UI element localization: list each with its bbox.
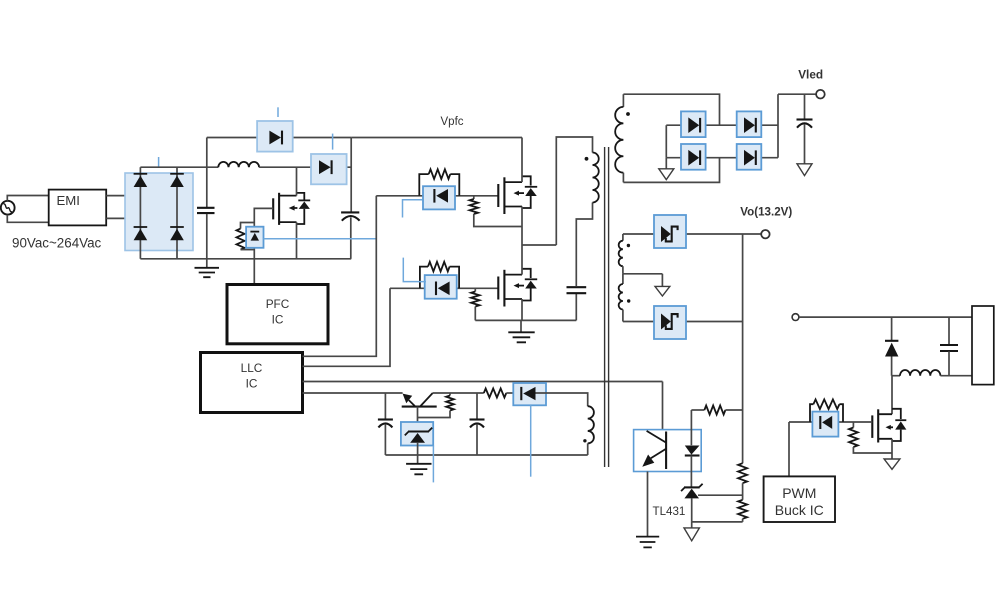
wire Q3 source (521, 299, 523, 320)
EMI filter block (49, 190, 106, 226)
sense diode highlight box (246, 227, 263, 248)
zener diode Z1 (405, 428, 432, 443)
Vled output wire (778, 93, 816, 95)
ground G2 (406, 464, 431, 475)
aux diode D8 (521, 387, 535, 400)
wire Vled coil top to bridge (623, 94, 719, 125)
wire Q4 collector row (433, 392, 484, 394)
zener diode box (401, 422, 433, 446)
ground G1 (195, 259, 220, 277)
bridge diode D3 (134, 226, 148, 228)
buck gate resistor (810, 399, 843, 421)
svg-text:Vled: Vled (798, 68, 823, 82)
low-side MOSFET Q3 (498, 269, 537, 307)
bypass diode D5 (269, 131, 281, 145)
aux resistor R3 (484, 389, 507, 398)
resonant capacitor C3 (567, 203, 593, 321)
wire mid node to primary top (556, 137, 592, 245)
gate resistor R1 (237, 223, 255, 250)
buck inductor L2 (892, 370, 972, 376)
buck top rail (799, 316, 972, 318)
wire Q2 drain (521, 138, 523, 183)
wire Q5 source (891, 439, 893, 453)
Vled output capacitor C4 (797, 94, 813, 164)
Vled winding dot (626, 112, 630, 116)
high-side gate diode box (423, 186, 455, 209)
Vled diode box TL (681, 111, 706, 137)
Vo bottom winding dot (627, 299, 630, 302)
optocoupler phototransistor (642, 431, 666, 469)
Vled diode D_TR (744, 117, 755, 133)
svg-text:TL431: TL431 (653, 505, 686, 518)
wire AC to EMI (top) (7, 196, 48, 201)
wire zener anode to ground (417, 443, 419, 464)
Vled diode D_BR (744, 150, 755, 166)
svg-text:Vpfc: Vpfc (441, 116, 464, 128)
ground G4 (636, 537, 659, 548)
schottky diode S1 (661, 226, 671, 242)
Vled rectifier right vertical (777, 94, 779, 158)
wire LLC Vcc (303, 392, 403, 394)
buck MOSFET Q5 (872, 409, 906, 443)
schottky diode S2 (661, 314, 671, 330)
bias resistor R2 (418, 393, 454, 418)
svg-text:Vo(13.2V): Vo(13.2V) (740, 206, 792, 219)
high-side MOSFET Q2 (498, 176, 537, 214)
wire R3 to aux diode (506, 392, 513, 394)
Vled secondary winding (615, 94, 623, 182)
bypass diode highlight box (257, 121, 293, 152)
arrow terminal A3 (655, 274, 670, 296)
wire Q1 gate (254, 208, 273, 284)
Vled rectifier bottom row wire (666, 157, 778, 159)
transformer primary winding (593, 153, 599, 203)
blue drop line (zener box) (432, 446, 434, 483)
PFC MOSFET Q1 (273, 193, 310, 225)
Vo feedback vertical (742, 234, 744, 463)
optocoupler box U3 (634, 430, 702, 472)
bridge left leg wire (139, 167, 141, 259)
buck pulldown resistor R7 (849, 422, 892, 453)
high-side pulldown resistor (470, 196, 522, 227)
feedback resistor R4 (691, 406, 742, 415)
high-side gate resistor (419, 169, 459, 196)
Vled rectifier left vertical (665, 125, 667, 158)
blue connector tick above bridge (158, 157, 160, 167)
load box (972, 306, 994, 385)
wire inductor to boost diode (259, 166, 351, 168)
wire LLC to low-side gate (303, 288, 391, 366)
wire TL431 anode (691, 498, 693, 522)
bridge rectifier highlight box (125, 173, 193, 251)
Vled diode D_BL (688, 150, 699, 166)
svg-text:IC: IC (246, 376, 258, 390)
sense diode D7 (250, 232, 259, 241)
bridge diode D1 (134, 173, 148, 175)
Vled diode box BL (681, 144, 706, 170)
PFC inductor L1 (218, 162, 259, 167)
buck gate diode box (812, 412, 838, 437)
divider resistor R6 (738, 500, 747, 522)
wire EMI to bridge (top input) (106, 195, 140, 197)
Vo top output wire (623, 233, 761, 235)
node junction vertical (Vpfc) (350, 138, 352, 213)
bottom feedback wire (692, 521, 743, 523)
svg-text:Buck IC: Buck IC (775, 502, 824, 518)
Vpfc rail (351, 137, 522, 139)
primary dot (585, 157, 589, 161)
bridge diode D2 (170, 173, 184, 175)
boost diode highlight box (311, 154, 347, 184)
PWM Buck IC box (764, 476, 835, 522)
blue connector tick above bypass diode (277, 107, 279, 117)
buck input terminal (792, 314, 799, 321)
boost diode D6 (319, 160, 331, 174)
Vo bottom output wire (623, 321, 743, 323)
buck capacitor C7 (940, 317, 958, 376)
wire opto collector (662, 382, 664, 430)
wire EMI to bridge (bottom input) (106, 217, 177, 219)
Vled rectifier top row wire (666, 124, 778, 126)
TL431 ref wire (698, 494, 743, 496)
aux capacitor C6 (470, 393, 485, 455)
primary ground rail (475, 319, 576, 321)
wire Q5 drain (891, 376, 893, 415)
wire aux diode to winding (536, 393, 588, 406)
buck gate diode (820, 416, 832, 429)
wire buck gate row (789, 421, 872, 423)
arrow terminal A1 (659, 158, 674, 180)
aux capacitor C5 (378, 393, 393, 455)
transformer core (605, 147, 609, 467)
low-side gate diode box (425, 275, 457, 299)
Vo secondary bottom winding (619, 274, 623, 322)
bypass diode row wire (207, 137, 351, 139)
aux winding (588, 406, 594, 455)
wire LLC feedback rail (303, 381, 663, 383)
wire LLC to high-side gate (303, 196, 377, 356)
blue sense line (264, 238, 377, 240)
low-side gate diode (435, 282, 437, 296)
high-side gate diode (433, 189, 435, 203)
svg-text:IC: IC (272, 312, 284, 326)
filter capacitor C1 (197, 167, 215, 259)
low-side gate resistor (420, 262, 459, 288)
wire Q1 source to bottom rail (296, 222, 298, 259)
wire Q3 drain (521, 245, 523, 275)
wire Q1 drain (296, 167, 298, 195)
center tap wire (623, 273, 663, 275)
Vled diode box BR (737, 144, 762, 170)
blue connector high-side (403, 200, 423, 218)
blue connector tick above boost diode (332, 134, 334, 150)
blue connector low-side (403, 258, 426, 282)
top rail bridge to inductor (140, 166, 218, 168)
Vled terminal (816, 90, 825, 99)
Vo top winding dot (627, 244, 630, 247)
TL431 U4 (681, 484, 703, 499)
svg-text:PFC: PFC (266, 297, 290, 311)
optocoupler LED (685, 410, 700, 487)
arrow terminal A5 (884, 453, 900, 469)
aux transistor Q4 (402, 393, 437, 407)
wire PWM IC to gate (788, 422, 790, 476)
bridge diode D4 (170, 226, 184, 228)
wire Q2 source to mid node (521, 207, 523, 246)
wire opto emitter (647, 472, 649, 537)
arrow terminal A4 (684, 522, 699, 541)
arrow terminal A2 (797, 164, 812, 176)
Vled diode box TR (737, 111, 762, 137)
svg-text:PWM: PWM (782, 485, 816, 501)
schottky diode box S1 (654, 215, 686, 248)
PFC IC box (227, 285, 328, 344)
svg-text:90Vac~264Vac: 90Vac~264Vac (12, 235, 102, 250)
low-side pulldown resistor (471, 288, 479, 320)
Vled diode D_TL (688, 117, 699, 133)
ground G3 (508, 320, 534, 342)
blue drop line (aux diode box) (530, 405, 532, 476)
wire bridge rail up to bypass row (206, 138, 208, 168)
wire high-side gate row (376, 195, 498, 197)
Vo terminal (761, 230, 769, 238)
aux bottom rail (385, 454, 587, 456)
divider resistor R5 (738, 463, 747, 500)
wire Q4 base (417, 407, 419, 431)
bridge right leg wire (176, 167, 178, 259)
svg-text:LLC: LLC (241, 361, 263, 375)
mid node wire (522, 244, 556, 246)
bottom rail (140, 258, 351, 260)
aux diode box (513, 383, 546, 405)
freewheel diode D9 (885, 317, 898, 376)
Vo secondary top winding (619, 234, 623, 274)
LLC IC box (201, 353, 303, 413)
wire AC to EMI (bottom) (7, 215, 48, 223)
aux winding dot (583, 439, 586, 442)
bulk capacitor C2 (341, 212, 360, 258)
svg-text:EMI: EMI (57, 193, 80, 208)
wire Vled coil bottom to bridge (623, 158, 719, 183)
schottky diode box S2 (654, 306, 686, 339)
wire low-side gate row (390, 287, 498, 289)
AC source V1 (1, 201, 15, 215)
